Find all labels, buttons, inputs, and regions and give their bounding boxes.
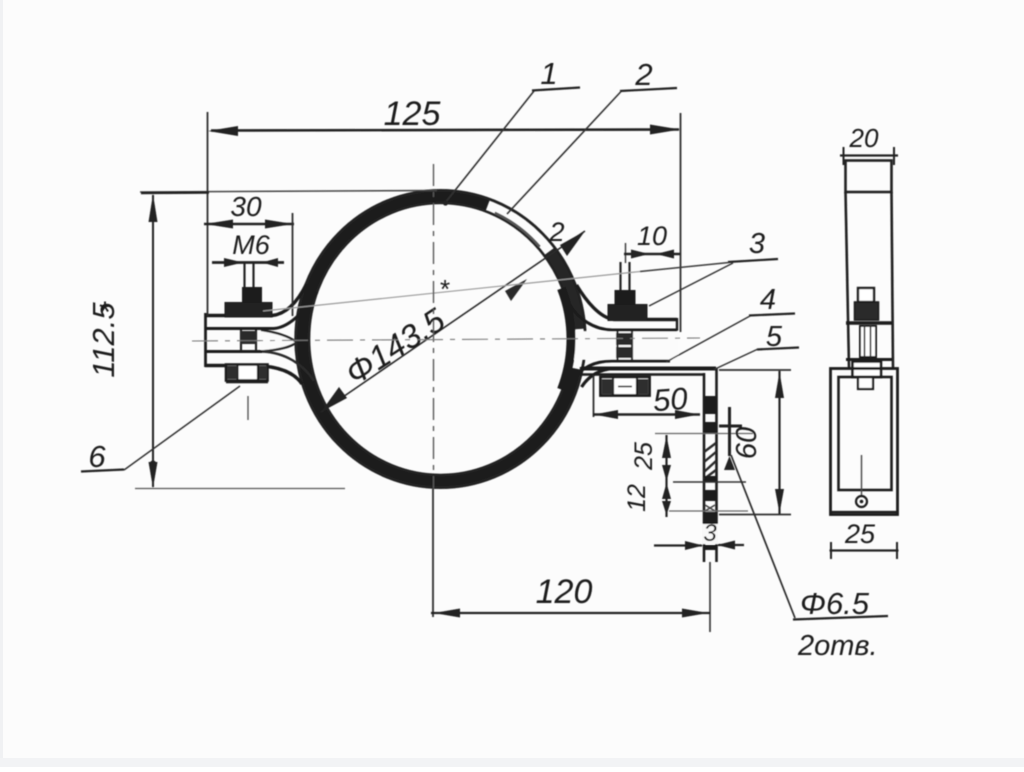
side hole	[856, 496, 867, 507]
left bolt nut/washer	[225, 303, 272, 318]
left mouth white wedge	[261, 331, 296, 351]
left bolt M6 shaft above	[245, 263, 254, 289]
dim 50 arrows	[594, 410, 699, 419]
112.5 top tick	[141, 191, 209, 194]
leader dia 6.5 line	[731, 455, 795, 618]
left mouth upper edge	[261, 330, 297, 342]
bracket vertical plate right edge	[715, 368, 718, 562]
right bolt shank dark blocks	[616, 333, 633, 345]
right bolt extension line top	[625, 243, 627, 263]
outer circle of clamp band	[296, 190, 586, 487]
dim 60 top tick	[719, 369, 791, 371]
bolt symbol at hole 1: vertical	[728, 407, 731, 456]
dim 10 line	[624, 253, 680, 256]
svg-text:Φ6.5: Φ6.5	[800, 586, 870, 621]
side strap line 2	[846, 358, 892, 361]
bolt symbol lower blob	[724, 456, 735, 470]
dia arrow upper	[560, 231, 585, 256]
label 5 underline	[757, 348, 799, 350]
plate dark block 2	[705, 422, 717, 433]
side bracket inner box	[839, 377, 892, 490]
112.5 ink dot	[150, 461, 157, 468]
clamp band dark fill patch above right mouth	[544, 248, 585, 330]
plate dark block 3	[705, 476, 717, 482]
side view top box	[846, 161, 892, 193]
svg-text:2: 2	[634, 57, 652, 92]
inner circle of clamp band	[309, 203, 572, 475]
svg-text:12: 12	[623, 484, 651, 512]
left flange end cap	[204, 313, 207, 367]
dim 112.5 vertical line	[152, 195, 154, 487]
right bolt head	[615, 290, 636, 305]
right lower ear curve into band	[582, 369, 613, 388]
right bolt shank between ears	[618, 331, 633, 361]
horizontal centerline of clamp	[192, 338, 700, 341]
svg-text:20: 20	[849, 123, 879, 153]
svg-text:50: 50	[652, 381, 689, 418]
svg-text:125: 125	[384, 95, 441, 133]
label 2 underline	[620, 88, 677, 91]
left lower nut dark cells	[227, 366, 237, 379]
label 3 leader to left bolt (long faint)	[640, 263, 729, 272]
dim 125 left extension line	[207, 112, 209, 316]
bracket plate left end cap	[580, 367, 582, 376]
side view plate right edge	[892, 192, 894, 368]
112.5 top arrow	[149, 194, 158, 222]
circle-bottom extension line	[135, 488, 345, 490]
bolt symbol crossbar	[719, 425, 742, 428]
right flange upper ear top edge	[577, 285, 678, 320]
right lower nut in bracket	[601, 377, 650, 396]
bracket top plate top edge	[581, 367, 716, 371]
svg-text:4: 4	[760, 284, 776, 316]
dim 125/10 right extension line	[680, 113, 682, 332]
left bolt centerline dashes below	[247, 396, 249, 420]
side bolt head	[858, 288, 874, 302]
dim 120 line	[431, 612, 710, 614]
svg-text:*: *	[99, 296, 111, 329]
side dim 25 line	[830, 549, 899, 551]
label 4 underline	[749, 314, 795, 316]
dim 125 line	[211, 130, 679, 131]
dia 143.5 dimension line	[321, 231, 585, 412]
bracket top plate bottom edge	[581, 373, 704, 376]
dim 120 left extension	[432, 489, 434, 617]
right flange lower ear top edge	[572, 361, 671, 381]
left flange lower ear top edge	[205, 350, 262, 353]
plate dark block 5	[705, 512, 717, 524]
svg-text:25: 25	[630, 442, 658, 471]
right lower nut facets	[613, 377, 637, 396]
circle-top extension line	[140, 191, 437, 193]
dim 30 right extension	[292, 213, 294, 316]
25/12 mid tick line	[673, 481, 746, 483]
svg-text:2отв.: 2отв.	[797, 630, 878, 662]
side dim 20 ticks	[844, 147, 895, 165]
dim 3 right arrow	[717, 541, 735, 550]
svg-text:3: 3	[749, 228, 765, 260]
dim 3 left segment	[654, 544, 702, 546]
plate bottom extension line for 120 dim	[709, 562, 711, 632]
plate dark block 4	[705, 490, 717, 501]
plate dark block 1	[705, 396, 717, 414]
plate marks	[705, 505, 715, 511]
svg-text:120: 120	[536, 573, 593, 611]
label 1 leader line	[445, 91, 534, 203]
right bolt shaft above	[621, 262, 630, 292]
svg-text:60: 60	[731, 427, 763, 459]
label 3 underline	[728, 259, 778, 262]
inner edge shading upper right sector	[495, 213, 540, 247]
label 4 leader	[666, 316, 750, 362]
left lower nut facets	[238, 365, 259, 381]
dim 50 line	[593, 413, 700, 415]
vertical centerline of clamp	[433, 164, 435, 488]
left flange upper ear top edge	[205, 284, 307, 316]
right mouth inner band strip	[562, 288, 572, 389]
left flange upper ear bottom edge	[205, 292, 317, 329]
side centre dash in box	[861, 455, 863, 496]
label 5 leader	[714, 349, 758, 370]
left bolt shank between ears	[241, 330, 256, 351]
svg-text:30: 30	[230, 191, 262, 222]
dim 3 right segment	[718, 544, 744, 546]
hole 2 centerline	[669, 510, 748, 512]
label 3 leader to right nut	[649, 263, 733, 306]
dim 30 right arrow	[265, 220, 293, 229]
dim 125 right arrow	[650, 125, 680, 135]
left lower nut bottom line	[226, 380, 268, 383]
25/12 arrows	[662, 436, 671, 458]
right mouth white channel	[573, 331, 679, 359]
hole 1 centerline	[655, 433, 753, 435]
svg-text:2: 2	[548, 217, 564, 247]
label 6 leader	[124, 386, 240, 470]
label 2 leader line	[507, 92, 621, 215]
side lower nut	[853, 362, 882, 378]
side bolt nut	[855, 302, 879, 320]
dim 25/12 vertical line	[665, 435, 667, 517]
dim 10 arrows	[631, 250, 674, 259]
M6 arrow right	[262, 258, 278, 267]
side bolt tail	[858, 377, 873, 389]
dim 60 bottom tick	[719, 514, 791, 516]
svg-text:1: 1	[540, 56, 557, 91]
dim 60 vertical line	[778, 371, 780, 514]
label 1 end dot	[443, 200, 448, 205]
side plate front bottom edge	[831, 511, 897, 513]
right flange upper ear bottom edge	[570, 304, 678, 330]
dim 30 left arrow	[205, 220, 233, 229]
dia arrow lower	[321, 387, 347, 412]
side bolt shank	[860, 326, 876, 357]
left bolt shank dark block	[240, 331, 257, 344]
side bracket outer box	[831, 369, 898, 515]
dim M6 line	[212, 261, 284, 264]
left bolt head	[242, 287, 262, 303]
dim 30 line	[204, 223, 294, 226]
right lower nut dark cells	[602, 379, 613, 394]
M6 arrow left	[224, 258, 243, 267]
label 6 underline	[81, 470, 124, 472]
dia mid arrow	[505, 279, 527, 301]
side view plate left edge	[846, 192, 850, 368]
left mouth lower edge	[261, 343, 297, 352]
dim 50 extension left	[593, 375, 595, 417]
dia 6.5 underline	[793, 616, 888, 620]
text 3 on plate	[702, 524, 718, 544]
side dim 25 ticks	[831, 542, 897, 559]
dim 3 left arrow	[685, 541, 703, 550]
left flange lower ear inner curve	[262, 352, 314, 382]
right nut center dash	[618, 386, 632, 388]
bracket vertical plate left edge	[703, 373, 706, 562]
left lower nut outline	[226, 365, 268, 381]
svg-text:25: 25	[844, 519, 876, 549]
svg-text:10: 10	[637, 221, 667, 251]
side strap line 1	[846, 321, 892, 324]
svg-text:M6: M6	[232, 230, 270, 260]
dim 125 left arrow	[208, 126, 238, 136]
svg-text:*: *	[440, 274, 450, 304]
plate hatch section	[704, 443, 716, 479]
right flange end cap	[676, 318, 678, 331]
clamp band dark fill (main sweep through top-left, bottom)	[296, 190, 582, 487]
svg-text:6: 6	[88, 439, 106, 474]
dim 120 arrows	[434, 609, 708, 618]
right bolt nut/washer	[608, 305, 647, 321]
svg-text:3: 3	[703, 520, 717, 547]
side dim 20 line	[840, 154, 898, 156]
112.5 bottom arrow	[149, 462, 158, 488]
plate dark block 6	[705, 545, 717, 550]
60 arrows	[775, 372, 784, 513]
left flange lower ear bottom edge	[205, 366, 302, 385]
label 1 underline	[532, 88, 580, 91]
